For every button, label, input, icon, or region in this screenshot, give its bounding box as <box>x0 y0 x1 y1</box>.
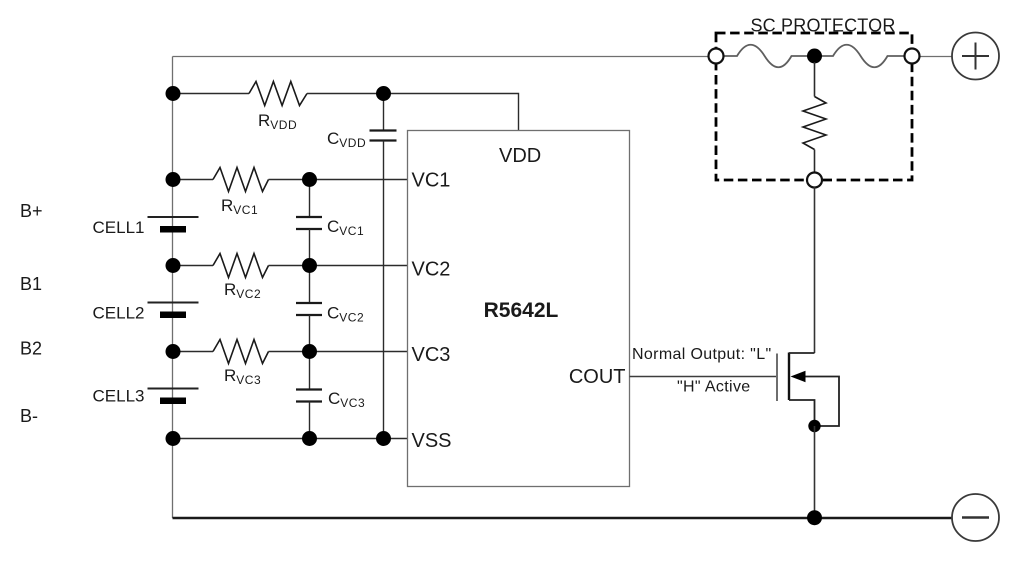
junction node CVDD/VSS <box>376 431 391 446</box>
svg-text:B2: B2 <box>20 339 42 359</box>
capacitor CVC1 <box>296 180 322 266</box>
svg-text:VDD: VDD <box>499 145 541 167</box>
label SC PROTECTOR <box>750 16 895 36</box>
svg-text:CELL3: CELL3 <box>93 387 145 406</box>
pin label VC1 <box>412 170 451 192</box>
fuse F2 wavy element right <box>821 45 905 68</box>
junction node VC2/CVC2 <box>302 258 317 273</box>
wire SC protector to FET drain <box>814 187 816 353</box>
svg-text:VC3: VC3 <box>412 344 451 366</box>
terminal pack plus <box>952 33 999 80</box>
svg-text:B+: B+ <box>20 201 43 221</box>
wire RVDD left lead <box>173 93 250 95</box>
label CVC3 <box>328 389 365 410</box>
terminal SC protector bottom <box>807 173 822 188</box>
terminal SC protector right <box>905 49 920 64</box>
SC protector dashed box <box>716 33 912 180</box>
label normal output <box>632 346 772 363</box>
label CVC2 <box>327 304 364 325</box>
wire COUT to gate <box>630 376 778 378</box>
wire VC2 node to IC pin <box>269 265 408 267</box>
svg-text:SC PROTECTOR: SC PROTECTOR <box>750 16 895 36</box>
node label B- <box>20 406 38 426</box>
label CELL3 <box>93 387 145 406</box>
svg-text:R5642L: R5642L <box>484 299 559 322</box>
label CVDD <box>327 129 366 150</box>
transistor Q1 source lead <box>789 400 815 426</box>
wire RVDD to VDD node <box>307 93 384 95</box>
junction node CVC3/VSS <box>302 431 317 446</box>
resistor RVC1 <box>213 168 269 192</box>
node label B+ <box>20 201 43 221</box>
svg-text:VSS: VSS <box>412 430 452 452</box>
capacitor CVC3 <box>296 352 322 439</box>
IC U1 R5642L box <box>408 131 630 487</box>
svg-text:B-: B- <box>20 406 38 426</box>
junction node B+ / VC1 <box>166 172 181 187</box>
junction node B+ / RVDD <box>166 86 181 101</box>
label CVC1 <box>327 217 364 238</box>
junction node B2 / VC3 <box>166 344 181 359</box>
transistor Q1 FET body <box>788 353 790 401</box>
node label B2 <box>20 339 42 359</box>
wire RVC1 left lead <box>173 179 214 181</box>
pin label VC3 <box>412 344 451 366</box>
pin label VDD <box>499 145 541 167</box>
wire top rail B+ <box>173 56 710 58</box>
svg-text:CELL2: CELL2 <box>93 304 145 323</box>
resistor SC protector heater <box>803 62 826 173</box>
battery CELL2 <box>148 303 199 319</box>
resistor RVC3 <box>213 340 269 364</box>
wire RVC3 left lead <box>173 351 214 353</box>
label RVC1 <box>221 196 258 217</box>
wire VC3 node to IC pin <box>269 351 408 353</box>
junction node B1 / VC2 <box>166 258 181 273</box>
capacitor CVC2 <box>296 266 322 352</box>
transistor Q1 FET gate <box>776 354 778 402</box>
wire left battery rail <box>172 57 174 519</box>
battery CELL3 <box>148 389 199 405</box>
label CELL1 <box>93 218 145 237</box>
wire source to B- rail <box>814 426 816 518</box>
svg-text:"H" Active: "H" Active <box>677 379 751 396</box>
fuse F1 wavy element left <box>724 45 809 68</box>
junction node B- / VSS <box>166 431 181 446</box>
junction node SC protector center <box>807 49 822 64</box>
label RVDD <box>258 111 297 132</box>
transistor Q1 drain lead <box>789 352 815 354</box>
terminal SC protector left <box>709 49 724 64</box>
battery CELL1 <box>148 217 199 233</box>
svg-text:CELL1: CELL1 <box>93 218 145 237</box>
resistor RVDD <box>249 82 307 106</box>
svg-text:COUT: COUT <box>569 366 626 388</box>
wire RVC2 left lead <box>173 265 214 267</box>
svg-text:VC2: VC2 <box>412 259 451 281</box>
pin label VC2 <box>412 259 451 281</box>
svg-text:B1: B1 <box>20 274 42 294</box>
junction node B- rail / FET <box>807 510 822 525</box>
pin label VSS <box>412 430 452 452</box>
wire SC protector to plus terminal <box>920 56 953 58</box>
transistor Q1 bulk wire <box>800 377 839 427</box>
transistor Q1 bulk arrow <box>791 371 806 382</box>
label H active <box>677 379 751 396</box>
wire VSS rail <box>173 438 408 440</box>
part number R5642L <box>484 299 559 322</box>
junction node source/bulk <box>808 420 820 432</box>
wire VC1 node to IC pin <box>269 179 408 181</box>
label CELL2 <box>93 304 145 323</box>
svg-text:VC1: VC1 <box>412 170 451 192</box>
label RVC3 <box>224 366 261 387</box>
pin label COUT <box>569 366 626 388</box>
svg-text:Normal Output: "L": Normal Output: "L" <box>632 346 772 363</box>
wire bottom B- rail <box>173 517 952 519</box>
node label B1 <box>20 274 42 294</box>
terminal pack minus <box>952 494 999 541</box>
junction node VDD/CVDD <box>376 86 391 101</box>
junction node VC3/CVC3 <box>302 344 317 359</box>
junction node VC1/CVC1 <box>302 172 317 187</box>
label RVC2 <box>224 280 261 301</box>
resistor RVC2 <box>213 254 269 278</box>
capacitor CVDD <box>370 94 397 439</box>
wire VDD node to IC VDD pin <box>384 94 519 131</box>
